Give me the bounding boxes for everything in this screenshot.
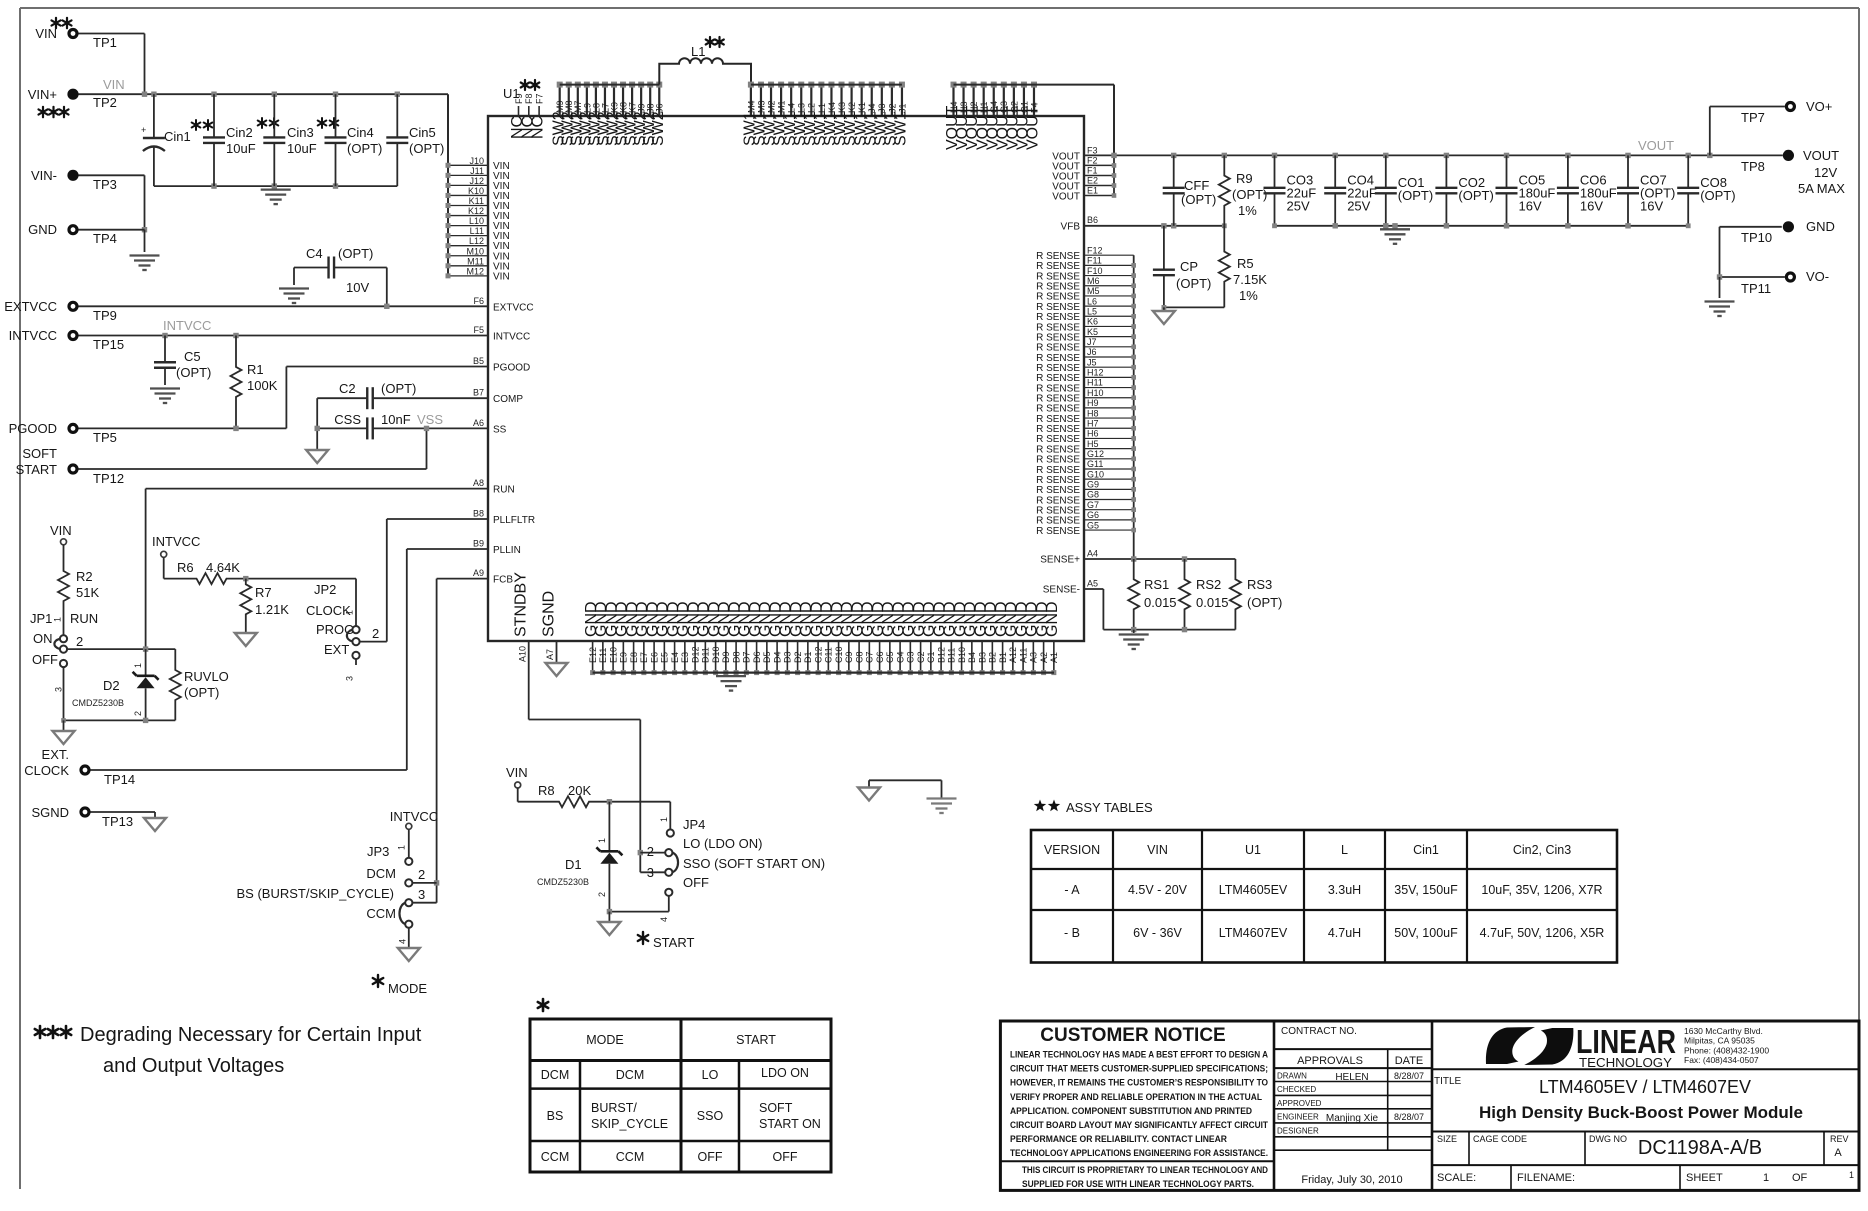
table MODE/START (530, 999, 831, 1172)
svg-text:A2: A2 (1039, 652, 1049, 663)
title block outer frame (1000, 1021, 1859, 1190)
ground at U1 SGND pin (546, 663, 568, 676)
ground at TP4 (130, 256, 160, 271)
svg-text:G8: G8 (1087, 490, 1099, 500)
U1 SGND pin A7 (540, 591, 557, 663)
svg-text:Cin1: Cin1 (1413, 843, 1439, 857)
svg-text:A11: A11 (1018, 648, 1028, 663)
scale/filename/sheet row (1432, 1165, 1859, 1190)
ground at U1 GND bus (716, 676, 746, 691)
svg-text:TP10: TP10 (1741, 230, 1772, 245)
svg-text:H8: H8 (1087, 408, 1099, 418)
svg-text:APPROVED: APPROVED (1277, 1099, 1322, 1108)
svg-text:A3: A3 (1029, 652, 1039, 663)
svg-text:M10: M10 (466, 246, 484, 256)
svg-text:CMDZ5230B: CMDZ5230B (72, 698, 124, 708)
svg-text:100K: 100K (247, 378, 278, 393)
svg-text:3: 3 (647, 865, 654, 880)
svg-text:VOUT: VOUT (1803, 148, 1839, 163)
svg-text:J11: J11 (470, 166, 484, 176)
jumper JP4 pin2 (665, 849, 672, 856)
svg-text:APPLICATION. COMPONENT SUBSTI: APPLICATION. COMPONENT SUBSTITUTION AND … (1010, 1106, 1252, 1117)
svg-text:DATE: DATE (1395, 1055, 1424, 1067)
capacitor CO3 (1264, 155, 1317, 225)
U1 GND pins with bus (583, 601, 1061, 675)
svg-text:OFF: OFF (698, 1150, 723, 1164)
svg-text:(OPT): (OPT) (176, 365, 211, 380)
svg-text:R SENSE: R SENSE (1036, 526, 1080, 537)
svg-text:1: 1 (133, 663, 143, 668)
svg-text:K11: K11 (469, 196, 484, 206)
wire EXTVCC (79, 304, 489, 309)
svg-text:NC: NC (530, 116, 547, 139)
svg-text:1: 1 (597, 838, 607, 843)
svg-text:ASSY TABLES: ASSY TABLES (1066, 800, 1153, 815)
jumper JP2 shunt 1-2 (347, 630, 353, 642)
svg-text:H6: H6 (1087, 429, 1099, 439)
svg-text:C4: C4 (306, 246, 323, 261)
svg-text:DWG NO: DWG NO (1589, 1134, 1627, 1144)
node VIN at R2 (50, 523, 72, 545)
capacitor CO5 (1496, 155, 1556, 225)
svg-text:B4: B4 (967, 652, 977, 663)
svg-text:E8: E8 (629, 652, 639, 663)
svg-text:LTM4607EV: LTM4607EV (1219, 926, 1288, 940)
svg-text:C4: C4 (895, 651, 905, 663)
svg-text:J12: J12 (469, 176, 484, 186)
net label VIN (103, 77, 125, 92)
svg-text:D8: D8 (731, 651, 741, 663)
svg-text:J6: J6 (1087, 347, 1097, 357)
svg-text:R7: R7 (255, 585, 272, 600)
svg-text:CLOCK: CLOCK (24, 763, 69, 778)
svg-text:EXTVCC: EXTVCC (4, 299, 57, 314)
svg-text:L10: L10 (469, 216, 484, 226)
jumper JP3 labels (237, 844, 426, 944)
svg-text:(OPT): (OPT) (1700, 188, 1735, 203)
svg-text:ENGINEER: ENGINEER (1277, 1112, 1319, 1121)
svg-text:SSO (SOFT START ON): SSO (SOFT START ON) (683, 856, 825, 871)
svg-text:FCB: FCB (493, 575, 513, 586)
wire TP1 to VIN node (79, 34, 145, 95)
svg-text:10uF: 10uF (287, 141, 317, 156)
svg-text:COMP: COMP (493, 394, 523, 405)
svg-text:U1: U1 (1245, 843, 1261, 857)
terminal TP2 VIN+ (28, 87, 117, 110)
svg-text:TP12: TP12 (93, 471, 124, 486)
U1 VIN pins J10-M12 with bus (446, 94, 510, 282)
TP2 stars (39, 107, 69, 117)
table ASSY TABLES (1031, 800, 1617, 963)
svg-text:E12: E12 (588, 647, 598, 663)
svg-text:(OPT): (OPT) (338, 246, 373, 261)
svg-text:VSS: VSS (417, 412, 443, 427)
svg-text:High Density Buck-Boost Power: High Density Buck-Boost Power Module (1479, 1103, 1803, 1122)
customer notice (1000, 1025, 1274, 1190)
svg-text:EXTVCC: EXTVCC (493, 302, 534, 313)
resistor RS1 (1128, 559, 1176, 630)
jumper JP4 pin3 (665, 869, 672, 876)
node VIN at R8 (506, 765, 528, 788)
svg-text:D7: D7 (742, 651, 752, 663)
U1 NC pins F9 F8 F7 (509, 93, 547, 139)
svg-text:and Output Voltages: and Output Voltages (103, 1055, 284, 1077)
svg-text:B9: B9 (473, 539, 484, 549)
svg-text:R2: R2 (76, 569, 93, 584)
svg-text:D1: D1 (565, 857, 582, 872)
svg-text:L12: L12 (469, 236, 484, 246)
svg-text:(OPT): (OPT) (184, 685, 219, 700)
svg-text:APPROVALS: APPROVALS (1297, 1055, 1363, 1067)
svg-text:G5: G5 (1087, 520, 1099, 530)
svg-text:CUSTOMER NOTICE: CUSTOMER NOTICE (1040, 1025, 1225, 1046)
svg-text:B12: B12 (936, 647, 946, 663)
wire PGOOD (79, 367, 489, 432)
svg-text:C11: C11 (824, 647, 834, 663)
resistor R5 (1219, 226, 1268, 308)
svg-text:A12: A12 (1008, 647, 1018, 663)
svg-text:OF: OF (1792, 1172, 1808, 1184)
ground at output caps (1380, 229, 1410, 244)
node INTVCC at JP3 (390, 809, 438, 829)
svg-text:DCM: DCM (541, 1068, 569, 1082)
ground at Cin bus (261, 190, 291, 205)
svg-text:25V: 25V (1347, 199, 1370, 214)
jumper JP1 labels (30, 611, 98, 692)
svg-text:LO (LDO ON): LO (LDO ON) (683, 836, 762, 851)
svg-text:RS2: RS2 (1196, 577, 1221, 592)
wire R2 to JP1 pin1 (63, 612, 65, 635)
svg-text:MODE: MODE (388, 981, 427, 996)
svg-text:F10: F10 (1087, 266, 1103, 276)
capacitor Cin1 (electrolytic) (141, 94, 212, 186)
svg-text:R6: R6 (177, 560, 194, 575)
resistor R9 (1219, 155, 1268, 225)
svg-text:(OPT): (OPT) (381, 381, 416, 396)
capacitor Cin3 (263, 94, 338, 186)
svg-text:B7: B7 (473, 388, 484, 398)
svg-text:4: 4 (659, 917, 669, 922)
L1 assembly-option stars (706, 37, 724, 47)
svg-text:B11: B11 (947, 648, 957, 663)
svg-text:2: 2 (597, 892, 607, 897)
terminal TP7 VO+ (1710, 99, 1833, 155)
svg-text:VO-: VO- (1806, 269, 1829, 284)
svg-text:A1: A1 (1049, 652, 1059, 663)
svg-text:TITLE: TITLE (1434, 1076, 1462, 1087)
svg-text:C9: C9 (844, 651, 854, 663)
svg-text:F11: F11 (1087, 256, 1102, 266)
svg-text:VOUT: VOUT (1025, 105, 1042, 150)
svg-text:10uF: 10uF (226, 141, 256, 156)
svg-text:B1: B1 (998, 652, 1008, 663)
svg-text:JP4: JP4 (683, 817, 705, 832)
svg-text:CIRCUIT THAT MEETS CUSTOMER-SU: CIRCUIT THAT MEETS CUSTOMER-SUPPLIED SPE… (1010, 1064, 1268, 1075)
svg-text:D6: D6 (752, 651, 762, 663)
svg-text:CAGE CODE: CAGE CODE (1473, 1134, 1527, 1144)
U1 VOUT right pins F3-E1 with bus (1052, 145, 1116, 202)
svg-text:Cin1: Cin1 (164, 129, 191, 144)
svg-text:(OPT): (OPT) (347, 141, 382, 156)
jumper JP1 pin1 (60, 635, 67, 642)
capacitor Cin2 (203, 94, 278, 186)
svg-text:2: 2 (76, 634, 83, 649)
resistor RS2 (1179, 559, 1229, 630)
svg-text:F8: F8 (524, 93, 534, 104)
svg-text:EXT.: EXT. (42, 747, 69, 762)
title texts (1432, 1069, 1859, 1122)
wire VIN input bus (79, 92, 449, 97)
svg-text:START: START (16, 462, 57, 477)
zener D1 (537, 802, 622, 912)
svg-text:SENSE+: SENSE+ (1040, 555, 1080, 566)
inductor L1 (659, 44, 751, 85)
svg-text:H5: H5 (1087, 439, 1099, 449)
svg-text:10V: 10V (346, 280, 369, 295)
terminal TP11 VO- (1717, 269, 1829, 298)
svg-text:G11: G11 (1087, 459, 1103, 469)
svg-text:D11: D11 (701, 647, 711, 663)
capacitor CO7 (1617, 155, 1675, 225)
svg-text:LTM4605EV / LTM4607EV: LTM4605EV / LTM4607EV (1539, 1077, 1751, 1097)
svg-text:D2: D2 (793, 651, 803, 663)
svg-text:G10: G10 (1087, 469, 1104, 479)
svg-text:VIN-: VIN- (31, 168, 57, 183)
svg-text:A5: A5 (1087, 579, 1098, 589)
svg-text:F12: F12 (1087, 245, 1103, 255)
capacitor CSS (317, 412, 488, 439)
ground at C5 (150, 389, 180, 404)
svg-text:4.7uH: 4.7uH (1328, 926, 1361, 940)
wire EXT CLOCK to PLLIN (91, 769, 407, 771)
terminal TP13 SGND (31, 805, 133, 829)
wire VOUT rail (1084, 153, 1783, 158)
ground at RS1 (1119, 635, 1149, 650)
svg-text:C6: C6 (875, 651, 885, 663)
svg-text:20K: 20K (568, 783, 591, 798)
jumper JP1 pin3 (60, 660, 67, 721)
svg-text:REV: REV (1830, 1134, 1849, 1144)
svg-text:OFF: OFF (683, 875, 709, 890)
svg-text:INTVCC: INTVCC (152, 534, 200, 549)
svg-text:LINEAR TECHNOLOGY HAS MADE A B: LINEAR TECHNOLOGY HAS MADE A BEST EFFORT… (1010, 1050, 1268, 1061)
svg-text:DRAWN: DRAWN (1277, 1072, 1307, 1081)
svg-text:SGND: SGND (31, 805, 69, 820)
svg-text:4.5V - 20V: 4.5V - 20V (1128, 883, 1188, 897)
svg-text:STNDBY: STNDBY (513, 572, 530, 637)
svg-text:RUN: RUN (70, 611, 98, 626)
jumper JP4 pin4 (665, 889, 672, 912)
svg-text:D5: D5 (762, 651, 772, 663)
jumper JP3 pin1 (405, 858, 412, 865)
svg-text:- B: - B (1064, 926, 1080, 940)
resistor R7 (240, 579, 289, 633)
svg-text:RS3: RS3 (1247, 577, 1272, 592)
svg-text:SW1: SW1 (893, 111, 910, 146)
svg-text:CSS: CSS (334, 412, 361, 427)
svg-text:E7: E7 (639, 652, 649, 663)
svg-text:D10: D10 (711, 646, 721, 663)
jumper JP2 pin1 (352, 626, 359, 633)
svg-text:C7: C7 (865, 651, 875, 663)
svg-text:D2: D2 (103, 678, 120, 693)
svg-text:D9: D9 (721, 651, 731, 663)
svg-text:VIN: VIN (50, 523, 72, 538)
svg-text:Phone: (408)432-1900: Phone: (408)432-1900 (1684, 1045, 1769, 1055)
wire sense bottom rail (1103, 627, 1235, 633)
U1 left pin designators and names (473, 296, 535, 586)
svg-text:M4: M4 (746, 100, 756, 113)
svg-text:M12: M12 (466, 266, 484, 276)
capacitor Cin4 (325, 94, 383, 186)
svg-text:D3: D3 (783, 651, 793, 663)
capacitor C4 (294, 246, 387, 306)
svg-text:Degrading Necessary for Certai: Degrading Necessary for Certain Input (80, 1024, 422, 1046)
svg-text:Cin2, Cin3: Cin2, Cin3 (1513, 843, 1571, 857)
svg-text:DESIGNER: DESIGNER (1277, 1126, 1319, 1135)
svg-text:(OPT): (OPT) (1398, 188, 1433, 203)
svg-text:L: L (1341, 843, 1348, 857)
terminal TP8 VOUT (1741, 148, 1845, 196)
wire D2 ground rail (61, 718, 175, 731)
svg-text:SOFT: SOFT (22, 446, 57, 461)
svg-text:SCALE:: SCALE: (1437, 1172, 1476, 1184)
ground at JP1/D2 (53, 731, 75, 744)
svg-text:TP7: TP7 (1741, 110, 1765, 125)
svg-text:1.21K: 1.21K (255, 602, 289, 617)
svg-text:35V, 150uF: 35V, 150uF (1394, 883, 1458, 897)
svg-text:2: 2 (133, 711, 143, 716)
svg-text:SSO: SSO (697, 1109, 724, 1123)
svg-text:B8: B8 (473, 509, 484, 519)
svg-text:TECHNOLOGY APPLICATIONS ENGINE: TECHNOLOGY APPLICATIONS ENGINEERING FOR … (1010, 1148, 1268, 1159)
svg-text:CP: CP (1180, 259, 1198, 274)
svg-text:3.3uH: 3.3uH (1328, 883, 1361, 897)
svg-text:1: 1 (1763, 1172, 1769, 1184)
svg-text:J7: J7 (1087, 337, 1097, 347)
svg-text:16V: 16V (1519, 199, 1542, 214)
svg-text:F5: F5 (473, 325, 484, 335)
ground at C2/CSS (306, 450, 328, 463)
svg-text:D12: D12 (690, 646, 700, 663)
terminal TP12 SOFT START (16, 446, 125, 486)
resistor R1 (231, 336, 278, 429)
wire R6 to JP2 pin1 (243, 576, 356, 626)
MODE note marker (373, 975, 428, 996)
svg-text:- A: - A (1064, 883, 1080, 897)
svg-text:L5: L5 (1087, 306, 1097, 316)
wire SENSE+ rail (1084, 556, 1235, 561)
terminal TP15 INTVCC (9, 328, 124, 352)
svg-text:SS: SS (493, 424, 507, 435)
svg-text:L1: L1 (691, 44, 705, 59)
svg-text:E9: E9 (619, 652, 629, 663)
svg-text:RUVLO: RUVLO (184, 669, 229, 684)
svg-text:SIZE: SIZE (1437, 1134, 1457, 1144)
svg-text:START ON: START ON (759, 1117, 821, 1131)
terminal TP1 VIN (35, 26, 117, 50)
wire output cap ground rail (1272, 223, 1691, 228)
net label INTVCC (163, 318, 211, 333)
ground at TP11 (1705, 302, 1735, 317)
wire INTVCC to JP3 pin1 (408, 829, 410, 858)
U1 RSENSE pins with bus (1036, 245, 1136, 559)
svg-text:PGOOD: PGOOD (9, 421, 57, 436)
svg-text:C2: C2 (339, 381, 356, 396)
svg-text:L6: L6 (1087, 296, 1097, 306)
svg-text:Cin3: Cin3 (287, 125, 314, 140)
ground at D1 (598, 922, 620, 935)
svg-text:VIN: VIN (1147, 843, 1168, 857)
svg-text:SENSE-: SENSE- (1043, 585, 1080, 596)
svg-text:G9: G9 (1087, 480, 1099, 490)
svg-text:ON: ON (33, 631, 53, 646)
svg-text:1: 1 (1849, 1170, 1854, 1180)
svg-text:R9: R9 (1236, 171, 1253, 186)
svg-text:J5: J5 (1087, 357, 1097, 367)
svg-text:FILENAME:: FILENAME: (1517, 1172, 1575, 1184)
svg-text:(OPT): (OPT) (1176, 276, 1211, 291)
svg-text:TP9: TP9 (93, 308, 117, 323)
U1 VFB pin B6 (1061, 215, 1098, 233)
svg-text:SHEET: SHEET (1686, 1172, 1723, 1184)
jumper JP4 shunt 2-3 (672, 853, 678, 873)
svg-text:VERSION: VERSION (1044, 843, 1100, 857)
svg-text:E4: E4 (670, 652, 680, 663)
svg-text:16V: 16V (1640, 199, 1663, 214)
svg-text:CCM: CCM (366, 906, 396, 921)
svg-text:F9: F9 (514, 93, 524, 104)
svg-text:VIN: VIN (35, 26, 57, 41)
svg-text:VOUT: VOUT (1638, 138, 1674, 153)
svg-text:VIN: VIN (103, 77, 125, 92)
svg-text:C3: C3 (906, 651, 916, 663)
resistor R2 (58, 545, 99, 612)
svg-text:F7: F7 (535, 93, 545, 104)
U1 STNDBY pin A10 (513, 572, 530, 720)
wire CP/R5 to ground (1162, 305, 1225, 311)
svg-text:H10: H10 (1087, 388, 1104, 398)
svg-text:A9: A9 (473, 568, 484, 578)
svg-text:A10: A10 (517, 646, 527, 662)
wire STNDBY to JP4 (529, 720, 666, 873)
svg-text:JP3: JP3 (367, 844, 389, 859)
op-amp U1 LTM4605/LTM4607 module body (488, 86, 1084, 641)
svg-text:TP2: TP2 (93, 95, 117, 110)
svg-text:M6: M6 (1087, 276, 1100, 286)
capacitor CO2 (1435, 155, 1493, 225)
svg-text:E5: E5 (660, 652, 670, 663)
svg-text:B10: B10 (957, 647, 967, 663)
jumper JP2 labels (306, 582, 379, 681)
svg-text:A8: A8 (473, 478, 484, 488)
resistor R8 (518, 783, 610, 807)
svg-text:INTVCC: INTVCC (390, 809, 438, 824)
svg-text:G6: G6 (1087, 510, 1099, 520)
svg-text:GND: GND (1044, 601, 1061, 637)
svg-text:1630 McCarthy Blvd.: 1630 McCarthy Blvd. (1684, 1026, 1763, 1036)
svg-text:1%: 1% (1239, 288, 1258, 303)
U1 SENSE+ pin A4 (1040, 549, 1098, 566)
svg-text:7.15K: 7.15K (1233, 272, 1267, 287)
svg-text:25V: 25V (1287, 199, 1310, 214)
svg-text:Cin5: Cin5 (409, 125, 436, 140)
svg-text:(OPT): (OPT) (1232, 187, 1267, 202)
svg-text:CHECKED: CHECKED (1277, 1085, 1316, 1094)
svg-text:(OPT): (OPT) (409, 141, 444, 156)
svg-text:PLLFLTR: PLLFLTR (493, 515, 535, 526)
svg-text:C2: C2 (916, 651, 926, 663)
